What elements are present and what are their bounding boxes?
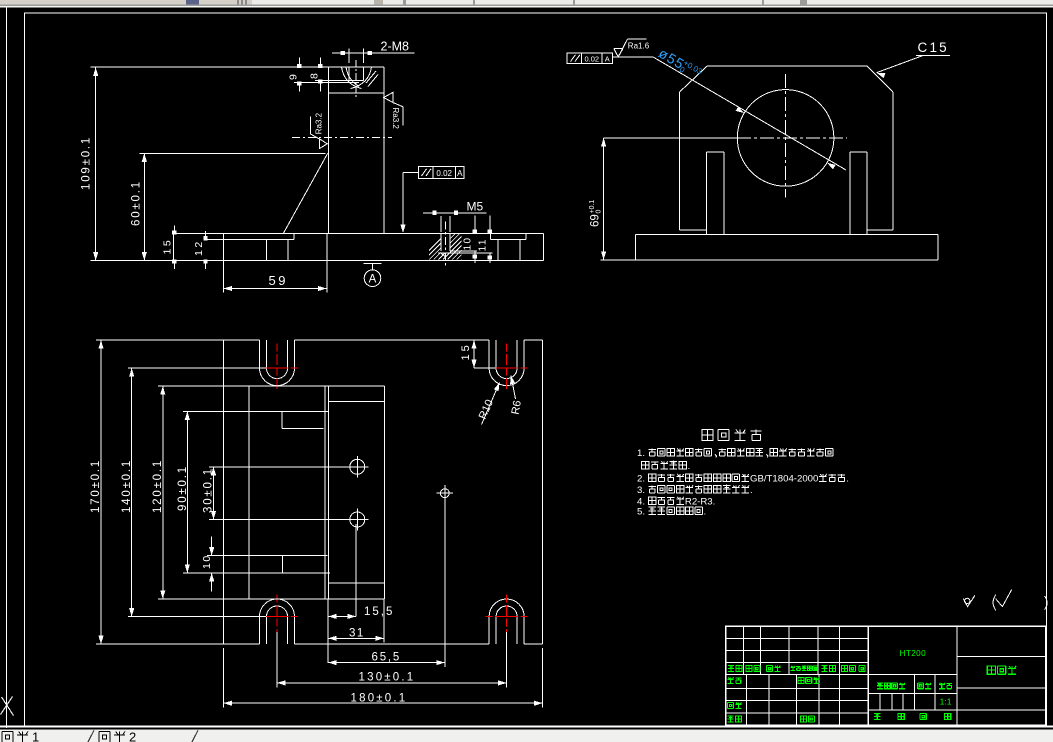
label 批准 xyxy=(801,716,807,722)
svg-text:Ra3.2: Ra3.2 xyxy=(391,108,400,130)
svg-text:0.02: 0.02 xyxy=(436,169,452,178)
bottom-left mounting slot R10/R6 xyxy=(259,617,261,645)
UCS X icon xyxy=(2,697,14,716)
svg-text:A: A xyxy=(457,169,463,178)
leader from frame to dimension line xyxy=(613,56,654,58)
left window border line xyxy=(6,7,8,728)
diameter dimension line Ø55 xyxy=(653,57,846,170)
dimension 15,5 xyxy=(355,524,357,616)
dimension 180±0.1 xyxy=(223,648,225,708)
svg-text:8: 8 xyxy=(309,73,321,79)
svg-text:1.: 1. xyxy=(637,448,645,459)
tab label 布局2 xyxy=(99,732,110,742)
dimension 30±0.1 xyxy=(213,467,215,520)
bottom-right slot red centerlines xyxy=(486,595,528,639)
parenthesis left xyxy=(993,595,996,611)
bore circle Ø55 xyxy=(737,90,834,187)
tab label 布局1 xyxy=(2,732,13,742)
dimension 140±0.1 xyxy=(128,367,266,369)
svg-text:0.02: 0.02 xyxy=(584,54,599,63)
roughness check mark in parentheses xyxy=(996,589,1012,606)
tab divider slash 2 xyxy=(192,730,198,742)
svg-text:31: 31 xyxy=(349,628,365,640)
svg-text:30±0.1: 30±0.1 xyxy=(202,467,214,513)
svg-text:15,5: 15,5 xyxy=(364,606,394,618)
top view lower notch xyxy=(207,555,328,557)
svg-text:Ra3.2: Ra3.2 xyxy=(314,112,323,134)
datum A symbol xyxy=(364,263,382,265)
title block outer border xyxy=(726,626,1046,725)
dimension 170±0.1 xyxy=(96,339,224,341)
svg-text:11: 11 xyxy=(478,238,489,251)
side view right rib xyxy=(849,152,851,234)
front view plate recess right xyxy=(489,234,491,240)
top-right slot red centerlines xyxy=(486,344,528,392)
dimension 31 xyxy=(327,599,329,663)
front view gusset diagonal xyxy=(283,153,327,233)
svg-text:180±0.1: 180±0.1 xyxy=(351,693,408,705)
svg-text:R6: R6 xyxy=(510,400,524,416)
svg-text:R2-R3.: R2-R3. xyxy=(685,496,715,507)
dimension text Ø55 +0.03/0 xyxy=(655,45,704,83)
svg-text:10: 10 xyxy=(201,554,213,569)
top view upper notch xyxy=(183,410,328,412)
svg-text:2.: 2. xyxy=(637,474,645,485)
label 标准化 xyxy=(798,677,804,683)
svg-text:.: . xyxy=(688,461,691,472)
svg-text:59: 59 xyxy=(269,273,288,288)
part name 夹具体 xyxy=(987,666,995,674)
parallelism frame 0.02 A (front view) xyxy=(418,167,464,179)
dimension 2-M8 xyxy=(332,52,414,54)
svg-text:2: 2 xyxy=(129,730,136,742)
section hatching around M5 hole xyxy=(420,234,524,260)
svg-text:140±0.1: 140±0.1 xyxy=(121,459,133,513)
title block left section upper grid xyxy=(726,637,869,639)
svg-text:170±0.1: 170±0.1 xyxy=(90,459,102,513)
dimension 109±0.1 xyxy=(95,68,97,261)
label 设计 xyxy=(728,677,734,683)
label 审核 xyxy=(728,702,734,708)
dimension 15 slot offset xyxy=(473,340,475,368)
svg-text:.: . xyxy=(846,474,849,485)
svg-text:60±0.1: 60±0.1 xyxy=(131,180,143,226)
svg-text:1:1: 1:1 xyxy=(940,697,952,707)
svg-text:A: A xyxy=(605,54,610,63)
front view plate recess left xyxy=(204,238,294,240)
svg-text:130±0.1: 130±0.1 xyxy=(359,672,416,684)
title block main vertical dividers xyxy=(867,626,869,725)
dimension 59 xyxy=(222,261,224,293)
technical requirements line 2 xyxy=(642,461,650,469)
M5 hole centerline xyxy=(444,222,446,269)
svg-text:A: A xyxy=(369,273,377,285)
tab divider slash xyxy=(88,730,94,742)
svg-text:12: 12 xyxy=(193,239,205,256)
Ra3.2 surface symbol left of column xyxy=(310,117,327,149)
svg-text:15: 15 xyxy=(162,238,174,255)
top view outer rectangle xyxy=(224,339,260,341)
M8 hole top view upper xyxy=(350,459,365,474)
Ra3.2 surface symbol right of column xyxy=(384,92,403,125)
svg-text:10: 10 xyxy=(463,236,474,250)
technical requirements title 技术要求 xyxy=(702,430,713,441)
svg-text:M5: M5 xyxy=(467,200,484,214)
svg-text:5.: 5. xyxy=(637,507,645,518)
svg-text:3.: 3. xyxy=(637,485,645,496)
bottom-right mounting slot R10/R6 xyxy=(488,617,490,645)
svg-text:1: 1 xyxy=(32,730,39,742)
side view body outline with chamfers xyxy=(707,65,867,67)
title block middle grid xyxy=(868,674,957,676)
M8 tapped hole xyxy=(348,67,350,81)
M5 hole top view xyxy=(440,489,449,498)
dimension 120±0.1 xyxy=(162,386,164,599)
dimension 15 xyxy=(173,226,175,234)
dimension 69 +0.1/0 xyxy=(603,138,605,260)
svg-text:120±0.1: 120±0.1 xyxy=(152,459,164,513)
bottom window edge line xyxy=(0,725,1053,727)
dimension 9 xyxy=(298,58,300,68)
parallelism frame 0.02 A (side view) xyxy=(567,53,613,64)
dimension 8 xyxy=(319,58,321,68)
Ra1.6 surface symbol xyxy=(614,48,623,50)
60 dim top extension line xyxy=(140,152,326,154)
svg-text:0: 0 xyxy=(596,210,603,214)
dimension 12 xyxy=(205,231,207,239)
radius label R6 xyxy=(511,376,516,400)
title block left section lower grid xyxy=(726,688,869,690)
parallelism frame leader (front view) xyxy=(403,172,418,174)
top view column footprint end lines xyxy=(329,400,385,402)
dimension 10 depth xyxy=(474,216,476,234)
toolbar strip remnant xyxy=(0,0,1053,5)
dimension 60±0.1 xyxy=(143,153,145,260)
label 工艺 xyxy=(728,715,734,722)
front view base plate outline xyxy=(174,233,544,235)
svg-text:2-M8: 2-M8 xyxy=(381,40,410,54)
svg-text:C15: C15 xyxy=(918,40,949,55)
svg-text:90±0.1: 90±0.1 xyxy=(177,465,189,511)
top-right mounting slot R10/R6 xyxy=(488,340,490,368)
bore vertical centerline xyxy=(785,74,787,197)
front view column bore centerline xyxy=(292,136,392,138)
svg-text:9: 9 xyxy=(288,74,300,80)
dimension 10 xyxy=(211,537,213,556)
title block right section rows xyxy=(957,655,1046,657)
dimension 130±0.1 xyxy=(276,632,278,687)
svg-text:.: . xyxy=(750,485,753,496)
M5 tapped hole with hatching xyxy=(440,234,442,252)
roughness symbol with circle xyxy=(965,598,970,603)
dimension 90±0.1 xyxy=(186,411,188,573)
svg-text:69: 69 xyxy=(590,214,602,227)
top view boss rectangle xyxy=(158,385,385,387)
side view left rib xyxy=(706,152,708,234)
labels 阶段标记 重量 比例 xyxy=(877,682,883,689)
svg-text:15: 15 xyxy=(460,342,472,360)
M8 hole top view lower xyxy=(350,512,365,527)
dimension 11 depth xyxy=(489,216,491,234)
radius label R10 xyxy=(482,383,500,425)
M8 hole centerline xyxy=(355,60,357,97)
side view base plate xyxy=(636,233,938,235)
layout tab bar xyxy=(0,729,1053,742)
svg-text:109±0.1: 109±0.1 xyxy=(81,136,93,190)
front view column xyxy=(91,66,384,68)
dimension M5 xyxy=(423,212,486,214)
toolbar icon fragments xyxy=(186,0,199,5)
bore horizontal centerline and 69 extension xyxy=(604,137,737,139)
svg-text:Ra1.6: Ra1.6 xyxy=(628,41,650,50)
bottom-left slot red centerlines xyxy=(256,595,298,639)
top-left slot red centerlines xyxy=(256,344,298,392)
label row 标记 处数 分区 更改文件号 签名 年月日 xyxy=(728,665,734,672)
svg-text:HT200: HT200 xyxy=(900,649,927,658)
top-left mounting slot R10/R6 xyxy=(259,340,261,368)
dimension 65,5 xyxy=(444,498,446,667)
front view vertical line at 59 right extension xyxy=(326,234,328,293)
stage mark checkboxes xyxy=(879,693,881,710)
labels 共 张 第 张 xyxy=(874,713,880,720)
svg-text:GB/T1804-2000: GB/T1804-2000 xyxy=(750,474,818,485)
parenthesis right xyxy=(1045,596,1048,610)
svg-text:.: . xyxy=(703,507,706,518)
top view column footprint double line xyxy=(324,386,326,599)
svg-text:65,5: 65,5 xyxy=(372,652,402,664)
